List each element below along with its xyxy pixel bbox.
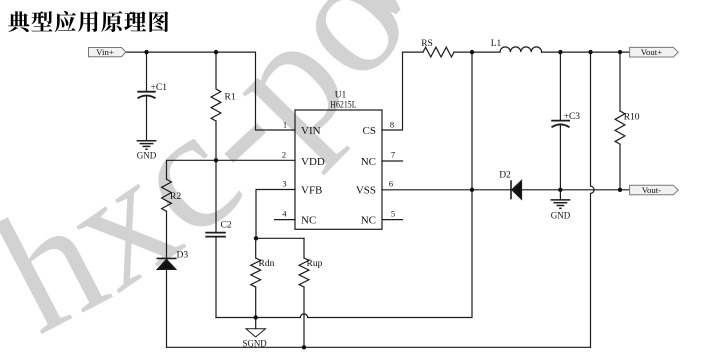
svg-text:Vin+: Vin+ xyxy=(96,47,114,57)
wire CS pin8 up to RS xyxy=(382,52,423,130)
svg-text:hxc-po: hxc-po xyxy=(0,0,446,354)
wire Rdn lower to feedback rail xyxy=(255,287,257,329)
svg-text:6: 6 xyxy=(389,179,393,189)
svg-text:D2: D2 xyxy=(499,171,511,181)
node R10 bottom xyxy=(618,188,622,192)
svg-text:VSS: VSS xyxy=(356,184,376,196)
svg-text:Rdn: Rdn xyxy=(259,259,275,269)
node GND-C3 bottom xyxy=(558,188,562,192)
resistor R10 xyxy=(619,52,621,111)
capacitor C3 xyxy=(552,120,569,122)
svg-text:R2: R2 xyxy=(170,192,181,202)
resistor R1 xyxy=(211,52,221,160)
IC U1 H6215L box xyxy=(295,110,382,229)
node RS-L1 xyxy=(470,50,474,54)
svg-text:8: 8 xyxy=(390,119,394,129)
svg-text:H6215L: H6215L xyxy=(330,99,356,109)
svg-text:R1: R1 xyxy=(225,93,236,103)
svg-text:7: 7 xyxy=(391,150,395,160)
resistor Rup xyxy=(303,238,305,258)
svg-text:CS: CS xyxy=(363,125,376,137)
wire GND stub under C3 xyxy=(559,190,561,200)
svg-text:VDD: VDD xyxy=(301,156,325,168)
svg-text:GND: GND xyxy=(551,210,571,220)
diode D2 xyxy=(510,180,512,199)
svg-text:L1: L1 xyxy=(491,39,502,49)
svg-text:Vout-: Vout- xyxy=(642,185,661,195)
node Vin+ tag xyxy=(89,48,126,57)
wire NC pin5 stub xyxy=(382,219,403,221)
inductor L1 xyxy=(500,47,542,52)
svg-text:VIN: VIN xyxy=(301,125,321,137)
node VFB node xyxy=(254,236,258,240)
wire VFB pin3 net xyxy=(256,190,304,239)
node R10 top xyxy=(618,50,622,54)
svg-text:NC: NC xyxy=(301,214,316,226)
svg-text:+C3: +C3 xyxy=(564,112,581,122)
node R1 bottom VDD xyxy=(214,158,218,162)
wire top rail RS to L1 to Vout+ xyxy=(454,51,630,53)
wire output vertical x=590.5, hop over Vout- rail xyxy=(591,52,595,347)
svg-text:Rup: Rup xyxy=(307,259,323,269)
wire VSS rail right of D2 to Vout- xyxy=(522,189,630,191)
node Rdn bottom xyxy=(254,315,258,319)
ground GND at output xyxy=(551,199,571,201)
svg-text:3: 3 xyxy=(282,179,286,189)
node Vout- tag xyxy=(630,185,679,195)
wire bottom rail y=347.3 xyxy=(167,346,591,348)
capacitor C2 xyxy=(206,233,225,237)
svg-text:1: 1 xyxy=(283,119,287,129)
svg-text:Vout+: Vout+ xyxy=(641,47,662,57)
capacitor C1 xyxy=(138,91,155,93)
svg-text:R10: R10 xyxy=(624,113,640,123)
diode D3 xyxy=(157,257,177,259)
wire R2-D3-bottom xyxy=(166,211,168,347)
resistor R2 xyxy=(162,179,172,211)
node switch-VSS xyxy=(470,188,474,192)
ground GND under C1 xyxy=(137,140,157,142)
svg-text:RS: RS xyxy=(421,39,433,49)
svg-text:SGND: SGND xyxy=(243,338,268,348)
wire Vin+ rail top-left y=52 xyxy=(126,52,295,130)
resistor RS xyxy=(423,47,454,57)
svg-text:NC: NC xyxy=(361,214,376,226)
svg-text:GND: GND xyxy=(137,151,157,161)
wire NC pin4 stub xyxy=(275,219,296,221)
wire C2 vertical xyxy=(215,160,217,317)
wire C1 branch xyxy=(146,52,148,141)
wire C3 branch xyxy=(559,52,561,190)
node Vout+ tag xyxy=(630,47,679,57)
wire switch-node vertical x=472 down to feedback rail, hop over Rup wire xyxy=(216,52,472,317)
svg-text:VFB: VFB xyxy=(301,184,322,196)
node C1 top xyxy=(144,50,148,54)
resistor Rdn xyxy=(255,238,257,258)
wire NC pin7 stub xyxy=(382,160,403,162)
node out vert top xyxy=(588,50,592,54)
wire Rup lower, straight through feedback rail xyxy=(303,287,305,347)
svg-text:5: 5 xyxy=(391,209,395,219)
title 典型应用原理图 xyxy=(8,11,168,32)
svg-text:NC: NC xyxy=(361,156,376,168)
ground SGND triangle xyxy=(246,329,265,337)
svg-text:+C1: +C1 xyxy=(151,83,168,93)
svg-text:C2: C2 xyxy=(221,220,232,230)
node Rup bottom xyxy=(302,345,306,349)
wire VDD rail y=160.3 with R2 corner xyxy=(167,160,296,179)
node R1 top xyxy=(214,50,218,54)
svg-text:D3: D3 xyxy=(177,251,189,261)
wire VSS rail y=189.8 left of D2 xyxy=(382,189,511,191)
svg-text:2: 2 xyxy=(282,150,286,160)
node C3 top xyxy=(558,50,562,54)
